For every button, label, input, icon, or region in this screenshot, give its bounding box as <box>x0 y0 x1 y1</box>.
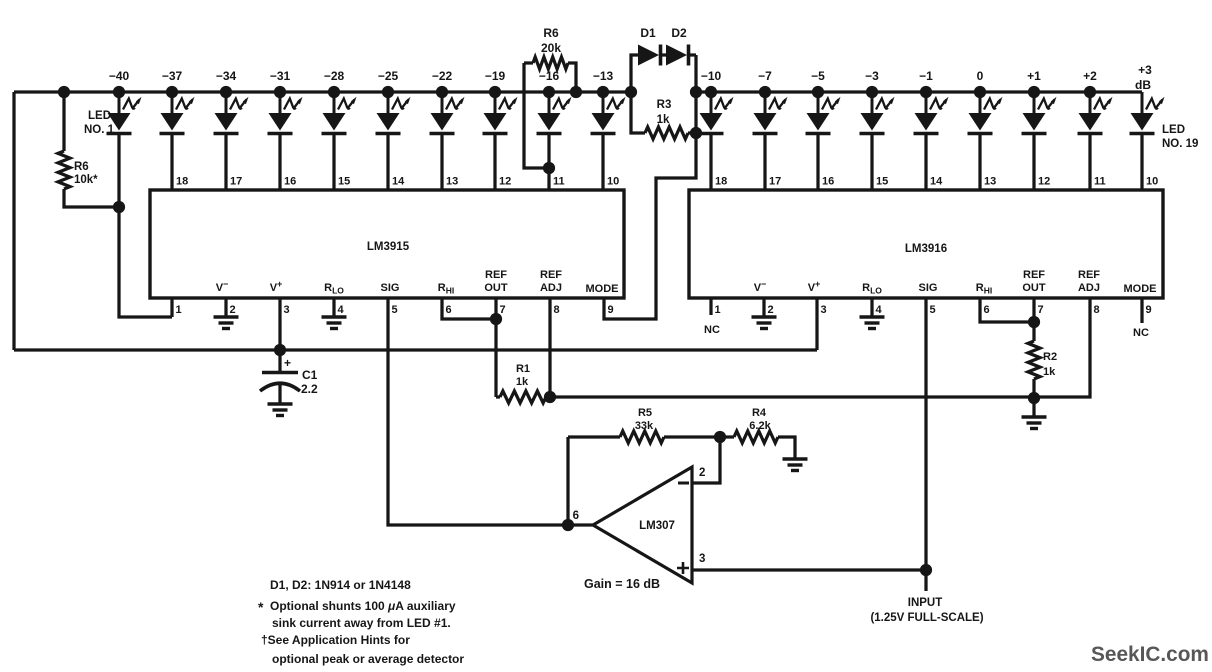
pin numbers bottom row LM3916 <box>715 304 1152 316</box>
wire LED1 cathode to pin 1 <box>119 134 172 318</box>
pin function labels LM3915 <box>216 269 619 296</box>
svg-text:17: 17 <box>230 176 242 188</box>
svg-text:0: 0 <box>977 69 984 83</box>
LED 19 (+3 dB) cathode wire to pin 10 of LM3916 <box>1130 92 1165 134</box>
svg-text:6: 6 <box>573 510 579 522</box>
svg-text:+1: +1 <box>1027 69 1041 83</box>
pin numbers top row LM3915 <box>176 176 619 188</box>
wire pin 8 REF ADJ LM3915 down <box>548 298 551 397</box>
ground at R4 <box>783 457 808 460</box>
svg-text:−37: −37 <box>162 69 183 83</box>
svg-text:R5: R5 <box>638 407 652 419</box>
LED 8 (−19 dB) anode-dot, cathode wire to pin 12 of LM3915 <box>483 92 518 134</box>
wire SIG pin 5 LM3916 / INPUT line <box>924 298 927 591</box>
pin numbers top row LM3916 <box>715 176 1158 188</box>
svg-text:NO. 1: NO. 1 <box>84 124 115 136</box>
node labels dB scale <box>109 63 1152 92</box>
svg-text:1: 1 <box>715 304 721 316</box>
label LED NO. 1 <box>84 110 115 136</box>
wire D2 cathode down through rail to R3 <box>694 55 697 133</box>
wire pin 1 LM3915 stub <box>170 298 173 317</box>
svg-text:−7: −7 <box>758 69 772 83</box>
svg-text:−1: −1 <box>919 69 933 83</box>
LED 4 (−31 dB) anode-dot, cathode wire to pin 16 of LM3915 <box>268 92 303 134</box>
svg-text:OUT: OUT <box>1022 282 1046 294</box>
wire top LED supply rail (right segment) <box>696 90 1142 93</box>
svg-text:NO. 19: NO. 19 <box>1162 138 1198 150</box>
LED 10 (−13 dB) anode-dot, cathode wire to pin 10 of LM3915 <box>591 92 626 134</box>
wire SIG pin 5 LM3915 to op-amp output <box>388 298 593 525</box>
svg-text:−5: −5 <box>811 69 825 83</box>
wire feedback riser <box>566 437 569 525</box>
svg-text:optional peak or average detec: optional peak or average detector <box>272 652 464 666</box>
svg-text:MODE: MODE <box>1124 283 1157 295</box>
svg-text:MODE: MODE <box>586 283 619 295</box>
svg-text:LM3915: LM3915 <box>367 241 410 253</box>
wire V+ rail to pin 3 of LM3916 <box>14 348 817 351</box>
svg-text:+3: +3 <box>1138 63 1152 77</box>
svg-text:33k: 33k <box>635 420 654 432</box>
svg-text:ADJ: ADJ <box>1078 282 1100 294</box>
wire pin 3 LM3915 to V+ rail <box>278 298 281 350</box>
resistor R6 20k (pin 11 to LED rail) <box>524 26 581 168</box>
svg-text:17: 17 <box>769 176 781 188</box>
wire pin 6 RHI LM3916 to pin 7 <box>980 298 1034 322</box>
svg-text:C1: C1 <box>302 368 318 382</box>
svg-text:5: 5 <box>392 304 398 316</box>
svg-text:8: 8 <box>1094 304 1100 316</box>
LED 11 (−10 dB) cathode wire to pin 18 of LM3916 <box>699 92 734 134</box>
svg-text:sink current away from LED #1.: sink current away from LED #1. <box>272 616 451 630</box>
op-amp-IC U2 LM3916 box <box>689 190 1163 298</box>
svg-text:Gain = 16 dB: Gain = 16 dB <box>584 577 660 591</box>
ground at pin 4 LM3915 <box>322 298 347 329</box>
wire pin 7 REF OUT LM3915 down to R1 <box>494 298 497 397</box>
resistor R3 1k <box>631 92 696 139</box>
svg-text:14: 14 <box>392 176 405 188</box>
svg-text:(1.25V FULL-SCALE): (1.25V FULL-SCALE) <box>870 612 983 624</box>
svg-text:Optional shunts 100 μA auxilia: Optional shunts 100 μA auxiliary <box>270 599 456 613</box>
wire REF ADJ bus to LM3916 pin 8 <box>550 298 1090 397</box>
svg-text:REF: REF <box>1023 269 1045 281</box>
svg-text:12: 12 <box>1038 176 1050 188</box>
svg-text:NC: NC <box>1133 327 1149 339</box>
svg-text:2: 2 <box>230 304 236 316</box>
wire non-inverting input pin 3 to INPUT node <box>692 568 926 571</box>
svg-text:NC: NC <box>704 324 720 336</box>
svg-text:9: 9 <box>608 304 614 316</box>
label INPUT <box>870 597 983 624</box>
node op-amp output junction <box>564 521 573 530</box>
svg-text:4: 4 <box>876 304 883 316</box>
svg-text:2.2: 2.2 <box>301 382 318 396</box>
svg-text:INPUT: INPUT <box>908 597 943 609</box>
svg-text:16: 16 <box>284 176 296 188</box>
LED 18 (+2 dB) cathode wire to pin 11 of LM3916 <box>1078 92 1113 134</box>
svg-text:*: * <box>258 599 264 615</box>
ground at R2 bottom <box>1022 398 1047 429</box>
svg-text:3: 3 <box>284 304 290 316</box>
svg-text:6: 6 <box>446 304 452 316</box>
svg-text:−10: −10 <box>701 69 722 83</box>
ground at pin 2 LM3916 <box>752 298 777 329</box>
svg-text:2: 2 <box>699 467 705 479</box>
wire pin 6 RHI LM3915 to pin 7 <box>442 298 496 319</box>
svg-text:10: 10 <box>1146 176 1158 188</box>
svg-text:7: 7 <box>500 304 506 316</box>
svg-text:3: 3 <box>699 553 705 565</box>
svg-text:−31: −31 <box>270 69 291 83</box>
svg-text:7: 7 <box>1038 304 1044 316</box>
svg-text:3: 3 <box>821 304 827 316</box>
op-amp-IC U1 LM3915 box <box>150 190 624 298</box>
svg-text:1k: 1k <box>1043 366 1056 378</box>
svg-text:OUT: OUT <box>484 282 508 294</box>
wire LM3915 MODE pin 9 to D2/R3 node <box>604 133 696 319</box>
svg-text:D1: D1 <box>640 26 656 40</box>
svg-text:†See Application Hints for: †See Application Hints for <box>261 633 410 647</box>
svg-text:SIG: SIG <box>919 282 938 294</box>
svg-text:16: 16 <box>822 176 834 188</box>
svg-text:20k: 20k <box>541 41 561 55</box>
svg-text:11: 11 <box>1094 176 1106 188</box>
diode D2 <box>662 26 696 66</box>
svg-text:14: 14 <box>930 176 943 188</box>
svg-text:10k*: 10k* <box>74 174 98 186</box>
resistor R1 1k <box>496 363 555 403</box>
LED 2 (−37 dB) anode-dot, cathode wire to pin 18 of LM3915 <box>160 92 195 134</box>
svg-text:9: 9 <box>1146 304 1152 316</box>
svg-text:1k: 1k <box>657 114 670 126</box>
svg-text:5: 5 <box>930 304 936 316</box>
svg-text:R6: R6 <box>74 161 89 173</box>
svg-text:R1: R1 <box>516 363 530 375</box>
svg-text:15: 15 <box>338 176 350 188</box>
LED 13 (−5 dB) cathode wire to pin 16 of LM3916 <box>806 92 841 134</box>
svg-text:−22: −22 <box>432 69 453 83</box>
svg-text:D1, D2: 1N914 or 1N4148: D1, D2: 1N914 or 1N4148 <box>270 578 411 592</box>
ground at pin 4 LM3916 <box>860 298 885 329</box>
LED 15 (−1 dB) cathode wire to pin 14 of LM3916 <box>914 92 949 134</box>
svg-text:−13: −13 <box>593 69 614 83</box>
svg-text:−25: −25 <box>378 69 399 83</box>
svg-text:4: 4 <box>338 304 345 316</box>
svg-text:2: 2 <box>768 304 774 316</box>
svg-text:LED: LED <box>1162 124 1185 136</box>
wire left V+ riser <box>12 92 15 350</box>
svg-text:13: 13 <box>984 176 996 188</box>
pin 9 LM3916 NC <box>1133 298 1149 339</box>
note text bottom left <box>258 578 464 666</box>
svg-text:10: 10 <box>607 176 619 188</box>
op-amp U3 LM307 <box>573 467 706 583</box>
svg-text:R6: R6 <box>543 26 559 40</box>
resistor R6 10k* (shunt at LED #1) <box>58 88 124 212</box>
svg-text:15: 15 <box>876 176 888 188</box>
svg-text:R2: R2 <box>1043 351 1057 363</box>
svg-text:1k: 1k <box>516 376 529 388</box>
svg-text:−3: −3 <box>865 69 879 83</box>
svg-text:LM3916: LM3916 <box>905 243 947 255</box>
wire pin 3 LM3916 V+ to rail <box>815 298 818 350</box>
ground at pin 2 LM3915 <box>214 298 239 329</box>
LED 5 (−28 dB) anode-dot, cathode wire to pin 15 of LM3915 <box>322 92 357 134</box>
pin 1 LM3916 NC <box>704 298 720 336</box>
svg-text:6: 6 <box>984 304 990 316</box>
svg-text:−40: −40 <box>109 69 130 83</box>
svg-text:SIG: SIG <box>381 282 400 294</box>
svg-text:18: 18 <box>715 176 727 188</box>
diode D1 <box>631 26 661 92</box>
LED 6 (−25 dB) anode-dot, cathode wire to pin 14 of LM3915 <box>376 92 411 134</box>
LED 14 (−3 dB) cathode wire to pin 15 of LM3916 <box>860 92 895 134</box>
svg-text:D2: D2 <box>671 26 687 40</box>
svg-text:REF: REF <box>540 269 562 281</box>
svg-text:−34: −34 <box>216 69 237 83</box>
pin function labels LM3916 <box>754 269 1157 296</box>
svg-text:SeekIC.com: SeekIC.com <box>1091 643 1209 666</box>
svg-text:−19: −19 <box>485 69 506 83</box>
svg-text:R3: R3 <box>657 99 672 111</box>
svg-text:−28: −28 <box>324 69 345 83</box>
LED 17 (+1 dB) cathode wire to pin 12 of LM3916 <box>1022 92 1057 134</box>
pin numbers bottom row LM3915 <box>176 304 614 316</box>
resistor R4 6.2k <box>720 407 795 459</box>
svg-text:ADJ: ADJ <box>540 282 562 294</box>
svg-text:REF: REF <box>1078 269 1100 281</box>
svg-text:6.2k: 6.2k <box>749 420 771 432</box>
svg-text:11: 11 <box>553 176 565 188</box>
svg-text:12: 12 <box>499 176 511 188</box>
svg-text:1: 1 <box>176 304 182 316</box>
LED 7 (−22 dB) anode-dot, cathode wire to pin 13 of LM3915 <box>430 92 465 134</box>
LED NO. 1 (-40 dB) <box>107 92 142 134</box>
svg-text:dB: dB <box>1135 78 1151 92</box>
svg-text:LM307: LM307 <box>639 520 675 532</box>
svg-text:+: + <box>284 356 291 370</box>
svg-text:13: 13 <box>446 176 458 188</box>
svg-text:LED: LED <box>88 110 111 122</box>
svg-text:R4: R4 <box>752 407 767 419</box>
wire top LED supply rail (left segment) <box>14 90 631 93</box>
LED 3 (−34 dB) anode-dot, cathode wire to pin 17 of LM3915 <box>214 92 249 134</box>
label LED NO. 19 <box>1162 124 1198 150</box>
svg-text:+2: +2 <box>1083 69 1097 83</box>
svg-text:REF: REF <box>485 269 507 281</box>
wire inverting input pin 2 <box>692 437 720 483</box>
LED 16 (0 dB) cathode wire to pin 13 of LM3916 <box>968 92 1003 134</box>
capacitor C1 2.2 (electrolytic) <box>260 350 318 416</box>
resistor R2 1k <box>1028 298 1057 403</box>
resistor R5 33k <box>568 407 725 443</box>
LED 9 (−16 dB) anode-dot, cathode wire to pin 11 of LM3915 <box>537 92 572 134</box>
svg-text:18: 18 <box>176 176 188 188</box>
svg-text:8: 8 <box>554 304 560 316</box>
LED 12 (−7 dB) cathode wire to pin 17 of LM3916 <box>753 92 788 134</box>
